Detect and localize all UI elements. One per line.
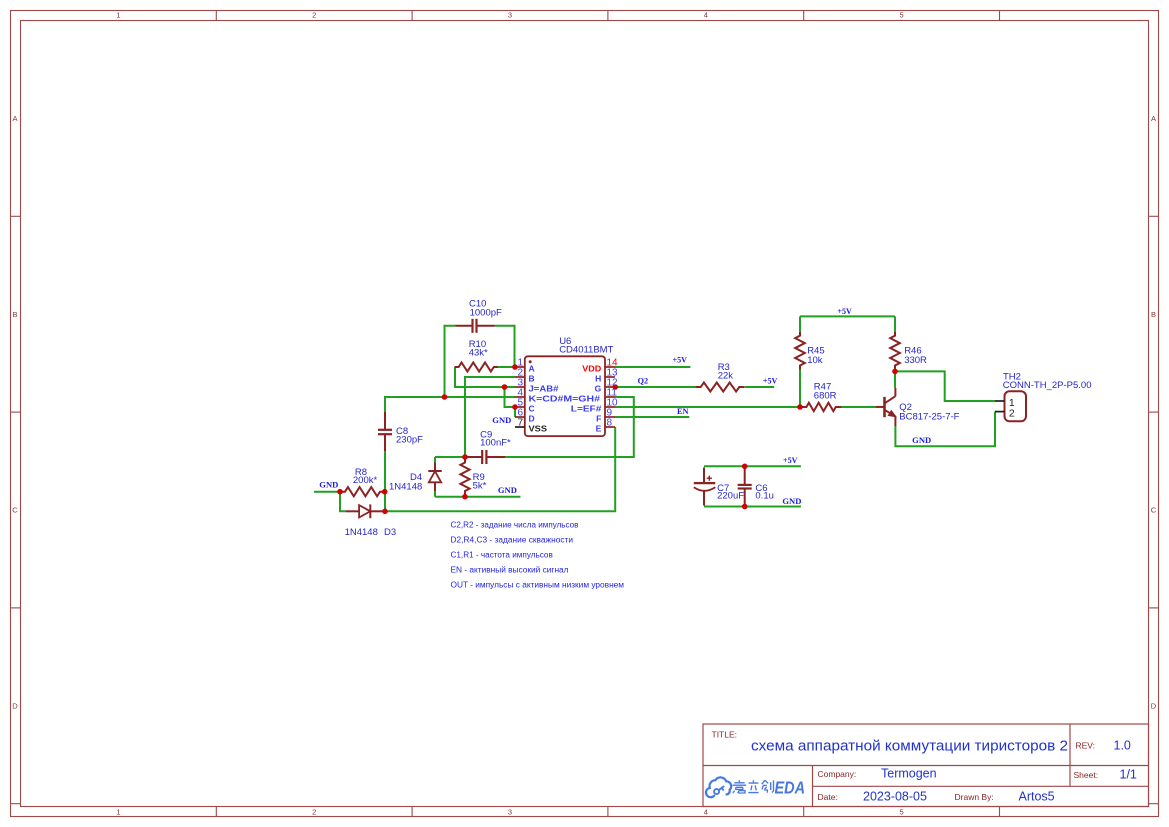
svg-text:H: H (595, 373, 601, 383)
svg-text:B: B (12, 310, 17, 319)
svg-text:2023-08-05: 2023-08-05 (863, 790, 927, 804)
svg-text:5k*: 5k* (473, 480, 487, 491)
svg-text:Drawn By:: Drawn By: (955, 792, 994, 802)
svg-text:GND: GND (912, 435, 931, 445)
svg-text:Sheet:: Sheet: (1074, 770, 1099, 780)
svg-text:C1,R1 - частота импульсов: C1,R1 - частота импульсов (451, 551, 553, 560)
svg-text:4: 4 (704, 808, 708, 817)
svg-text:VDD: VDD (582, 363, 601, 373)
svg-text:43k*: 43k* (469, 348, 488, 359)
svg-text:D2,R4,C3 - задание скважности: D2,R4,C3 - задание скважности (451, 536, 574, 545)
svg-text:A: A (1151, 114, 1156, 123)
svg-text:Termogen: Termogen (881, 767, 937, 781)
svg-text:L=EF#: L=EF# (571, 403, 602, 413)
svg-text:5: 5 (900, 11, 904, 20)
svg-text:330R: 330R (904, 355, 927, 366)
svg-text:3: 3 (508, 808, 512, 817)
svg-text:+5V: +5V (783, 455, 798, 465)
svg-text:4: 4 (704, 11, 708, 20)
svg-text:220uF: 220uF (717, 491, 744, 502)
svg-text:D3: D3 (384, 527, 396, 538)
svg-text:1N4148: 1N4148 (389, 482, 422, 493)
svg-text:GND: GND (492, 415, 511, 425)
svg-text:E: E (596, 423, 602, 433)
svg-text:OUT - импульсы с активным низк: OUT - импульсы с активным низким уровнем (451, 581, 625, 590)
svg-text:Artos5: Artos5 (1019, 790, 1055, 804)
svg-text:230pF: 230pF (396, 435, 423, 446)
svg-text:3: 3 (508, 11, 512, 20)
svg-text:GND: GND (782, 496, 801, 506)
svg-text:B: B (1151, 310, 1156, 319)
svg-text:BC817-25-7-F: BC817-25-7-F (899, 412, 959, 423)
svg-text:1: 1 (116, 808, 120, 817)
svg-text:C: C (1151, 506, 1157, 515)
svg-text:10k: 10k (807, 355, 823, 366)
svg-text:680R: 680R (814, 391, 837, 402)
svg-text:1.0: 1.0 (1114, 739, 1131, 753)
svg-text:1: 1 (116, 11, 120, 20)
svg-text:CD4011BMT: CD4011BMT (559, 345, 613, 356)
svg-text:VSS: VSS (529, 423, 548, 433)
svg-text:8: 8 (607, 418, 613, 429)
svg-text:G: G (595, 383, 602, 393)
svg-text:1/1: 1/1 (1120, 768, 1137, 782)
svg-text:D: D (12, 702, 18, 711)
svg-text:F: F (596, 413, 601, 423)
svg-text:C: C (12, 506, 18, 515)
svg-text:22k: 22k (718, 371, 734, 382)
svg-text:+5V: +5V (837, 306, 852, 316)
svg-text:EDA: EDA (775, 777, 806, 797)
svg-text:1N4148: 1N4148 (345, 527, 378, 538)
svg-text:+5V: +5V (763, 375, 778, 385)
svg-text:2: 2 (312, 808, 316, 817)
svg-text:7: 7 (517, 418, 523, 429)
svg-text:A: A (529, 363, 535, 373)
svg-text:C: C (529, 403, 535, 413)
svg-text:B: B (529, 373, 535, 383)
svg-text:K=CD#M=GH#: K=CD#M=GH# (529, 393, 601, 403)
svg-text:схема аппаратной коммутации ти: схема аппаратной коммутации тиристоров 2 (751, 739, 1068, 755)
svg-text:D: D (1151, 702, 1157, 711)
svg-text:Company:: Company: (818, 769, 857, 779)
svg-text:GND: GND (498, 485, 517, 495)
svg-text:2: 2 (312, 11, 316, 20)
svg-text:5: 5 (900, 808, 904, 817)
svg-text:D: D (529, 413, 535, 423)
svg-text:2: 2 (1009, 408, 1015, 420)
svg-text:A: A (12, 114, 17, 123)
svg-text:J=AB#: J=AB# (529, 383, 559, 393)
svg-text:100nF*: 100nF* (480, 438, 511, 449)
svg-text:REV:: REV: (1076, 741, 1096, 751)
svg-text:C2,R2 - задание числа импульсо: C2,R2 - задание числа импульсов (451, 521, 579, 530)
svg-text:Date:: Date: (818, 792, 838, 802)
svg-text:CONN-TH_2P-P5.00: CONN-TH_2P-P5.00 (1003, 380, 1092, 391)
svg-text:200k*: 200k* (353, 475, 378, 486)
svg-text:+5V: +5V (673, 355, 688, 365)
svg-text:EN - активный высокий сигнал: EN - активный высокий сигнал (451, 566, 569, 575)
svg-text:0.1u: 0.1u (755, 491, 774, 502)
svg-text:TITLE:: TITLE: (712, 730, 738, 740)
svg-text:GND: GND (319, 479, 338, 489)
svg-text:1000pF: 1000pF (470, 308, 502, 319)
svg-text:Q2: Q2 (638, 375, 649, 385)
svg-text:EN: EN (677, 406, 689, 416)
